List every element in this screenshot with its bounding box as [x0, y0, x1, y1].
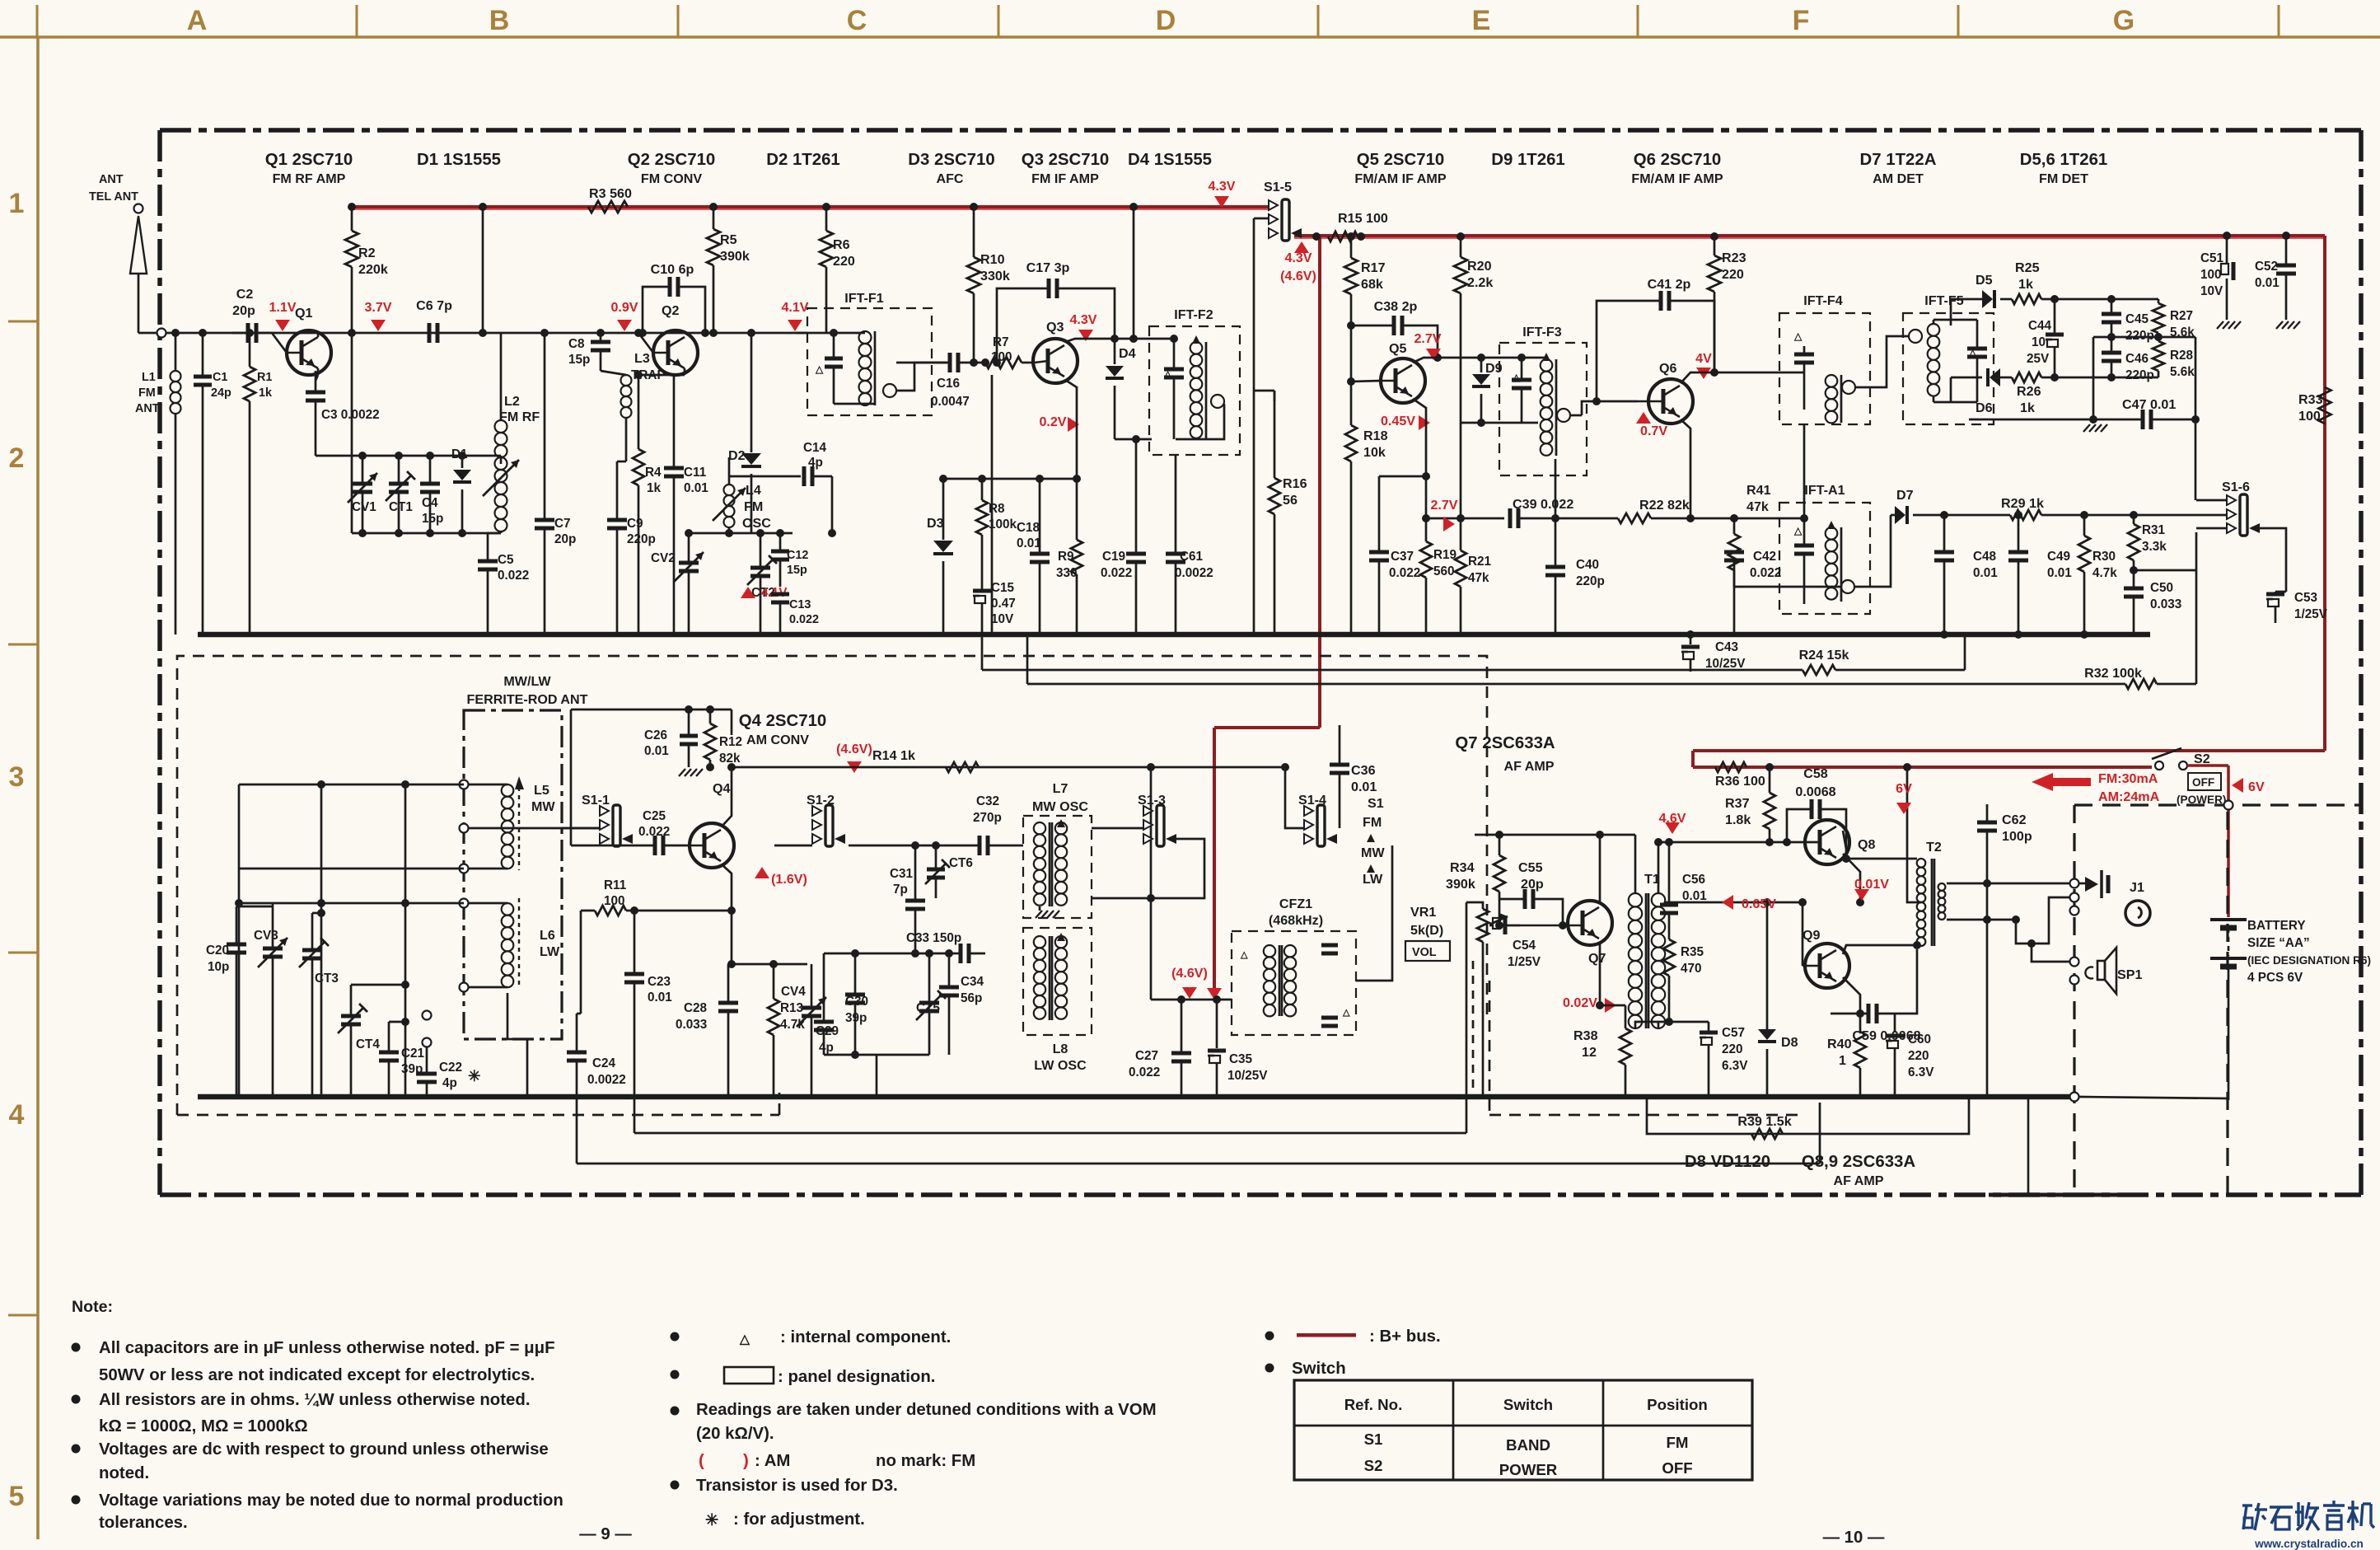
transistor Q6 — [1638, 361, 1693, 424]
svg-text:C34: C34 — [961, 975, 984, 989]
capacitor C17 — [993, 260, 1115, 367]
svg-text:C20: C20 — [206, 944, 229, 958]
switch S1-6 — [2175, 480, 2286, 592]
resistor R21 — [1455, 514, 1492, 635]
resistor R37 — [1725, 763, 1775, 842]
svg-text:D2 1T261: D2 1T261 — [766, 151, 840, 169]
wire Q4 emitter — [722, 864, 732, 964]
svg-text:7p: 7p — [893, 883, 908, 897]
wire Q8 emitter — [1843, 854, 1860, 902]
svg-text:D3 2SC710: D3 2SC710 — [908, 151, 994, 169]
svg-text:(468kHz): (468kHz) — [1269, 913, 1323, 928]
svg-text:Q5: Q5 — [1389, 341, 1407, 356]
svg-text:220p: 220p — [2125, 329, 2154, 343]
volume VR1 — [1405, 905, 1508, 1097]
resistor R24 — [1690, 636, 1965, 675]
capacitor C22 — [417, 1011, 481, 1098]
capacitor C5 — [478, 533, 529, 635]
svg-text:C62: C62 — [2002, 812, 2027, 827]
svg-text:0.2V: 0.2V — [1039, 414, 1066, 429]
resistor R18 — [1345, 377, 1388, 635]
svg-text:All capacitors are in μF unles: All capacitors are in μF unless otherwis… — [99, 1339, 555, 1357]
svg-text:CV3: CV3 — [254, 929, 278, 943]
resistor R14 — [872, 748, 979, 772]
capacitor C57 — [1700, 1022, 1748, 1097]
svg-text:0.02V: 0.02V — [1563, 995, 1597, 1010]
svg-text:R21: R21 — [1468, 555, 1492, 569]
svg-text:A: A — [187, 5, 208, 36]
svg-text:0.0068: 0.0068 — [1795, 784, 1835, 799]
svg-text:6.3V: 6.3V — [1722, 1059, 1748, 1073]
svg-text:1k: 1k — [2018, 277, 2033, 292]
svg-text:C: C — [847, 5, 867, 36]
svg-text:AF AMP: AF AMP — [1833, 1173, 1883, 1188]
svg-text:R7: R7 — [993, 335, 1009, 349]
junction dots bus1 — [348, 203, 356, 211]
svg-text:0.01: 0.01 — [648, 990, 672, 1004]
svg-text:R33: R33 — [2298, 392, 2323, 407]
svg-text:Q1: Q1 — [295, 306, 313, 321]
svg-text:Q4 2SC710: Q4 2SC710 — [739, 712, 827, 730]
svg-text:C46: C46 — [2125, 352, 2149, 366]
svg-text:15p: 15p — [787, 564, 807, 577]
svg-text:4: 4 — [9, 1099, 25, 1131]
capacitor C7 — [535, 333, 576, 635]
svg-text:0.022: 0.022 — [498, 569, 529, 583]
svg-text:0.01: 0.01 — [2255, 276, 2279, 290]
svg-text:2.2k: 2.2k — [1467, 275, 1493, 290]
svg-text:100: 100 — [2200, 268, 2222, 282]
svg-text:R12: R12 — [719, 735, 742, 749]
svg-text:1k: 1k — [2020, 400, 2035, 415]
capacitor C48 — [1934, 515, 1998, 639]
resistor R31 — [2128, 511, 2167, 570]
svg-text:0.033: 0.033 — [676, 1018, 707, 1032]
wire bottom drop — [2027, 1097, 2030, 1195]
wire link afc — [991, 375, 994, 635]
transformer L8 — [1023, 928, 1092, 1073]
svg-text:Switch: Switch — [1292, 1360, 1346, 1378]
wire volume top — [1466, 902, 1468, 1133]
wire C37 node — [1379, 475, 1426, 478]
svg-text:0.01: 0.01 — [644, 744, 669, 758]
svg-text:△: △ — [1793, 330, 1803, 342]
resistor R34 — [1446, 831, 1505, 930]
svg-text:6V: 6V — [2248, 780, 2265, 794]
wire IFT-F2 out — [1176, 404, 1224, 439]
svg-text:noted.: noted. — [99, 1464, 149, 1482]
svg-text:5k(D): 5k(D) — [1410, 923, 1443, 938]
svg-text:FM: FM — [744, 499, 763, 514]
svg-text:CV1: CV1 — [352, 500, 376, 514]
wire CFZ out — [1356, 845, 1392, 981]
capacitor C23 — [624, 906, 672, 1133]
capacitor C16 — [896, 353, 985, 409]
svg-text:Q7 2SC633A: Q7 2SC633A — [1455, 734, 1555, 752]
svg-text:R23: R23 — [1722, 251, 1746, 265]
svg-text:R39 1.5k: R39 1.5k — [1737, 1114, 1791, 1129]
svg-text:Q8,9 2SC633A: Q8,9 2SC633A — [1802, 1153, 1916, 1171]
svg-text:10k: 10k — [1363, 445, 1386, 460]
wire Q9 emitter — [1843, 977, 1860, 1014]
svg-text:10p: 10p — [208, 960, 229, 974]
box AF dashed — [1489, 1114, 1806, 1117]
wire AF feed — [1151, 999, 1232, 1001]
wire Q4 emitter bus — [728, 963, 807, 966]
svg-text:R14 1k: R14 1k — [872, 748, 915, 763]
ground bus FM — [198, 632, 2150, 638]
capacitor C30 — [845, 953, 868, 1055]
svg-text:R17: R17 — [1361, 260, 1386, 275]
svg-text:1: 1 — [1839, 1053, 1846, 1068]
svg-text:(4.6V): (4.6V) — [1280, 269, 1316, 283]
capacitor C56 — [1660, 838, 1707, 939]
wire IFT-F1 in — [796, 332, 865, 335]
box AM shield — [177, 656, 1487, 1115]
svg-text:C41 2p: C41 2p — [1648, 277, 1691, 292]
svg-text:D: D — [1156, 5, 1176, 36]
capacitor C59 — [1803, 949, 1921, 1043]
resistor R23 — [1708, 232, 1746, 372]
svg-text:S1-5: S1-5 — [1264, 180, 1292, 194]
capacitor C58 — [1787, 766, 1846, 859]
resistor R3 — [588, 186, 632, 213]
svg-text:3.7V: 3.7V — [364, 300, 391, 315]
svg-text:S1: S1 — [1368, 796, 1384, 811]
svg-text:5.6k: 5.6k — [2170, 365, 2195, 379]
wire T1 feed — [1634, 835, 1637, 893]
watermark crystalradio — [2242, 1501, 2374, 1550]
svg-text:Q2: Q2 — [662, 303, 680, 318]
wire Q3 emitter — [1065, 380, 1077, 479]
voltage 4.3V 4.6V — [1294, 241, 1309, 253]
svg-text:(1.6V): (1.6V) — [771, 872, 807, 887]
svg-text:0.022: 0.022 — [1101, 566, 1132, 580]
svg-text:(IEC DESIGNATION R6): (IEC DESIGNATION R6) — [2247, 954, 2371, 967]
capacitor C26 — [644, 709, 703, 776]
svg-text:C12: C12 — [787, 549, 808, 562]
resistor R41 — [1728, 483, 1841, 587]
inductor IFT-A1 — [1779, 483, 1870, 614]
wire antenna bus — [198, 780, 464, 907]
svg-text:LW: LW — [1363, 872, 1383, 887]
svg-text:0.0022: 0.0022 — [587, 1073, 626, 1087]
svg-text:1.8k: 1.8k — [1725, 812, 1751, 827]
svg-text:C36: C36 — [1351, 763, 1376, 778]
svg-text:FM: FM — [1667, 1434, 1689, 1451]
svg-text:FM:30mA: FM:30mA — [2098, 771, 2158, 786]
wire IFTF2 to R16 — [1254, 390, 1274, 392]
svg-text:R24 15k: R24 15k — [1799, 648, 1849, 663]
capacitor C2 — [232, 287, 272, 343]
svg-text:C31: C31 — [890, 867, 914, 881]
wire osc tank2 — [689, 532, 793, 535]
svg-text:C23: C23 — [648, 975, 671, 989]
svg-text:Q3 2SC710: Q3 2SC710 — [1022, 151, 1110, 169]
svg-text:C49: C49 — [2047, 550, 2070, 564]
svg-text:: AM: : AM — [755, 1452, 790, 1470]
svg-text:C45: C45 — [2125, 312, 2149, 326]
svg-text:(4.6V): (4.6V) — [836, 742, 872, 756]
svg-text:T2: T2 — [1926, 840, 1942, 855]
resistor R40 — [1827, 1014, 1866, 1097]
svg-text:0.01: 0.01 — [1351, 780, 1377, 794]
wire sp join — [1961, 883, 1987, 888]
wire L6 bottom tap — [507, 993, 527, 1097]
transformer IFT-F4 — [1779, 293, 1870, 424]
svg-text:R31: R31 — [2142, 523, 2166, 537]
resistor R19 — [1420, 518, 1457, 635]
svg-text:2.7V: 2.7V — [1414, 331, 1441, 346]
svg-text:C37: C37 — [1391, 550, 1414, 564]
svg-text:R29 1k: R29 1k — [2001, 496, 2044, 511]
capacitor C6 — [416, 298, 452, 343]
resistor R27 — [2153, 299, 2195, 340]
diode D8 — [1758, 902, 1798, 1097]
svg-text:D1: D1 — [451, 447, 468, 461]
svg-text:FM IF AMP: FM IF AMP — [1031, 171, 1099, 186]
capacitor C27 — [1129, 1000, 1191, 1097]
svg-text:20p: 20p — [554, 532, 576, 546]
svg-text:Voltage variations may be note: Voltage variations may be noted due to n… — [99, 1491, 563, 1510]
label battery — [2247, 919, 2371, 985]
svg-text:Ref. No.: Ref. No. — [1344, 1396, 1403, 1413]
trimmer CT6 — [925, 845, 973, 898]
svg-text:C35: C35 — [1229, 1052, 1253, 1066]
wire Q5 collector — [1413, 358, 1481, 363]
svg-text:10/25V: 10/25V — [1227, 1069, 1268, 1083]
svg-text:C3 0.0022: C3 0.0022 — [321, 408, 380, 422]
svg-text:D5,6 1T261: D5,6 1T261 — [2020, 151, 2108, 169]
svg-text:1k: 1k — [259, 386, 273, 400]
capacitor C15 — [973, 577, 1016, 635]
svg-text:D8 VD1120: D8 VD1120 — [1685, 1153, 1770, 1171]
wire Q8 collector — [1843, 831, 1846, 849]
wire AM in — [562, 827, 600, 830]
svg-text:560: 560 — [1433, 564, 1455, 578]
svg-text:(20 kΩ/V).: (20 kΩ/V). — [696, 1425, 774, 1443]
svg-text:0.01: 0.01 — [684, 481, 708, 495]
svg-text:0.0047: 0.0047 — [931, 395, 970, 409]
wire Q2 emitter — [684, 368, 686, 375]
svg-text:10: 10 — [2032, 335, 2046, 349]
svg-text:IFT-F1: IFT-F1 — [844, 291, 883, 306]
svg-text:0.01: 0.01 — [1973, 566, 1998, 580]
resistor R28 — [2153, 337, 2195, 379]
wire S1-5 drop — [1253, 218, 1255, 635]
resistor R9 — [1056, 479, 1082, 635]
wire Q4 collector — [722, 767, 732, 827]
inductor L2 — [483, 333, 540, 531]
svg-text:FM/AM IF AMP: FM/AM IF AMP — [1631, 171, 1723, 186]
switch S1-1 — [582, 793, 633, 846]
capacitor C39 — [1426, 497, 1573, 528]
svg-text:— 9 —: — 9 — — [579, 1525, 632, 1543]
svg-text:15p: 15p — [422, 512, 443, 526]
variable capacitor CV2 — [651, 533, 704, 635]
svg-text:D5: D5 — [1976, 273, 1993, 288]
capacitor C8 — [568, 333, 610, 371]
svg-text:Note:: Note: — [72, 1298, 113, 1316]
wire Q1 base — [272, 333, 287, 353]
resistor R17 — [1344, 236, 1386, 382]
svg-text:0.9V: 0.9V — [610, 300, 638, 315]
svg-text:220k: 220k — [358, 262, 388, 277]
svg-text:220: 220 — [1722, 1042, 1743, 1056]
svg-text:R22 82k: R22 82k — [1639, 498, 1690, 513]
svg-text:OSC: OSC — [742, 516, 771, 531]
capacitor C29 — [814, 953, 839, 1055]
variable capacitor CV3 — [254, 903, 288, 1097]
svg-text:AM DET: AM DET — [1873, 171, 1924, 186]
svg-text:L1: L1 — [142, 371, 156, 384]
svg-text:C22: C22 — [439, 1061, 462, 1075]
svg-text:L8: L8 — [1053, 1042, 1068, 1056]
svg-text:C26: C26 — [644, 728, 667, 742]
inductor L6 — [502, 898, 560, 989]
capacitor C34 — [939, 949, 984, 1055]
ground osc — [1036, 911, 1042, 918]
svg-text:1/25V: 1/25V — [1508, 955, 1541, 969]
svg-text:FM CONV: FM CONV — [641, 171, 702, 186]
resistor R13 — [768, 964, 805, 1097]
svg-text:Q5 2SC710: Q5 2SC710 — [1357, 151, 1445, 169]
antenna ANT — [89, 173, 147, 333]
svg-text:C42: C42 — [1753, 550, 1776, 564]
notes right — [1265, 1328, 1441, 1378]
svg-text:Q8: Q8 — [1858, 837, 1876, 852]
svg-text:R13: R13 — [780, 1001, 803, 1015]
svg-text:270p: 270p — [973, 811, 1002, 825]
svg-text:C8: C8 — [568, 337, 585, 351]
wire Q8 base — [1658, 841, 1820, 844]
svg-text:C33 150p: C33 150p — [906, 931, 961, 945]
diode D6 — [1976, 368, 2012, 415]
wire L5 taps — [460, 779, 508, 992]
svg-text:L7: L7 — [1053, 781, 1068, 796]
capacitor C49 — [2008, 511, 2072, 639]
svg-text:B: B — [489, 5, 510, 36]
svg-text:△: △ — [1342, 1008, 1350, 1018]
svg-text:D4: D4 — [1119, 346, 1136, 361]
svg-text:R4: R4 — [645, 466, 662, 480]
svg-text:C13: C13 — [789, 598, 811, 611]
wire bias node — [943, 478, 1077, 480]
svg-text:LW: LW — [540, 944, 560, 959]
current note — [2032, 773, 2091, 791]
label OFF POWER — [2177, 773, 2226, 806]
svg-text:TEL ANT: TEL ANT — [89, 190, 138, 204]
wire bias Q8Q9 — [1664, 901, 1803, 904]
svg-text:D7 1T22A: D7 1T22A — [1860, 151, 1937, 169]
svg-text:S1-1: S1-1 — [582, 793, 610, 808]
resistor R20 — [1454, 232, 1493, 518]
diode D3 transistor — [927, 479, 953, 635]
capacitor C35 — [1208, 1000, 1268, 1097]
link VR1 dashed — [1472, 961, 1475, 1097]
svg-text:MW: MW — [531, 799, 555, 814]
svg-text:SIZE “AA”: SIZE “AA” — [2247, 936, 2310, 950]
diode D2 — [728, 333, 761, 533]
svg-text:S1: S1 — [1364, 1431, 1383, 1448]
wire det bottom — [1950, 377, 1952, 402]
svg-text:C43: C43 — [1715, 640, 1738, 654]
svg-text:56: 56 — [1283, 493, 1298, 508]
ground det — [2083, 424, 2090, 432]
wire det to S1-6 — [2195, 419, 2197, 500]
svg-text:L3: L3 — [634, 351, 650, 366]
svg-text:4p: 4p — [442, 1076, 457, 1090]
svg-text:C57: C57 — [1722, 1026, 1745, 1040]
svg-text:100: 100 — [2298, 409, 2321, 424]
svg-text:100p: 100p — [2002, 829, 2032, 844]
svg-text:C55: C55 — [1518, 860, 1543, 875]
box speaker dashed — [2074, 801, 2361, 1194]
svg-text:1: 1 — [9, 188, 25, 219]
svg-text:△: △ — [739, 1332, 750, 1346]
svg-text:C56: C56 — [1682, 873, 1705, 887]
capacitor C21 — [379, 1018, 425, 1097]
wire osc feedback — [1092, 839, 1204, 898]
svg-text:220p: 220p — [1576, 574, 1605, 588]
svg-text:Q3: Q3 — [1046, 320, 1064, 335]
svg-text:IFT-F3: IFT-F3 — [1522, 325, 1561, 340]
resistor R15 — [1312, 211, 1388, 241]
wire Q5 emitter — [1413, 399, 1426, 518]
wire S1-3 to C32 — [1022, 845, 1024, 846]
svg-text:: internal component.: : internal component. — [780, 1328, 951, 1346]
svg-text:C58: C58 — [1803, 766, 1828, 781]
transformer T1 — [1629, 872, 1665, 1028]
resistor R5 — [707, 207, 750, 333]
wire link C14 — [831, 476, 834, 533]
resistor R6 — [820, 207, 855, 333]
transformer IFT-F5 — [1903, 293, 1994, 424]
transformer IFT-F2 — [1115, 307, 1240, 455]
wire IFT-F4 link — [1803, 424, 1806, 518]
svg-text:R10: R10 — [980, 252, 1005, 267]
svg-text:BATTERY: BATTERY — [2247, 919, 2306, 933]
svg-text:R5: R5 — [720, 232, 737, 247]
capacitor C3 — [306, 371, 380, 456]
capacitor C18 — [1017, 479, 1050, 635]
svg-text:4.3V: 4.3V — [1208, 179, 1235, 194]
svg-text:no mark: FM: no mark: FM — [876, 1452, 975, 1470]
svg-text:VOL: VOL — [1412, 946, 1437, 959]
svg-text:D7: D7 — [1896, 488, 1914, 503]
diode D4 — [1106, 339, 1152, 439]
svg-text:VR1: VR1 — [1410, 905, 1436, 920]
svg-text:FM/AM IF AMP: FM/AM IF AMP — [1354, 171, 1446, 186]
resistor R29 — [1940, 496, 2175, 520]
svg-text:3: 3 — [9, 761, 25, 793]
svg-text:MW OSC: MW OSC — [1032, 799, 1088, 814]
svg-text:R26: R26 — [2017, 384, 2041, 399]
svg-text:R30: R30 — [2092, 550, 2116, 564]
svg-text:R25: R25 — [2015, 260, 2040, 275]
switch S1-4 — [1298, 793, 1337, 846]
svg-text:FM RF AMP: FM RF AMP — [273, 171, 346, 186]
wire battery return — [2079, 1097, 2228, 1098]
svg-text:0.022: 0.022 — [789, 613, 819, 626]
wire AF volume feed — [634, 1132, 1466, 1135]
svg-text:C38 2p: C38 2p — [1374, 299, 1418, 314]
svg-text:ANT: ANT — [135, 402, 160, 415]
capacitor C62 — [1977, 804, 2032, 1097]
svg-text:C32: C32 — [976, 794, 999, 808]
diode D9 — [1461, 358, 1538, 427]
voltage 0.65V — [1722, 895, 1733, 910]
